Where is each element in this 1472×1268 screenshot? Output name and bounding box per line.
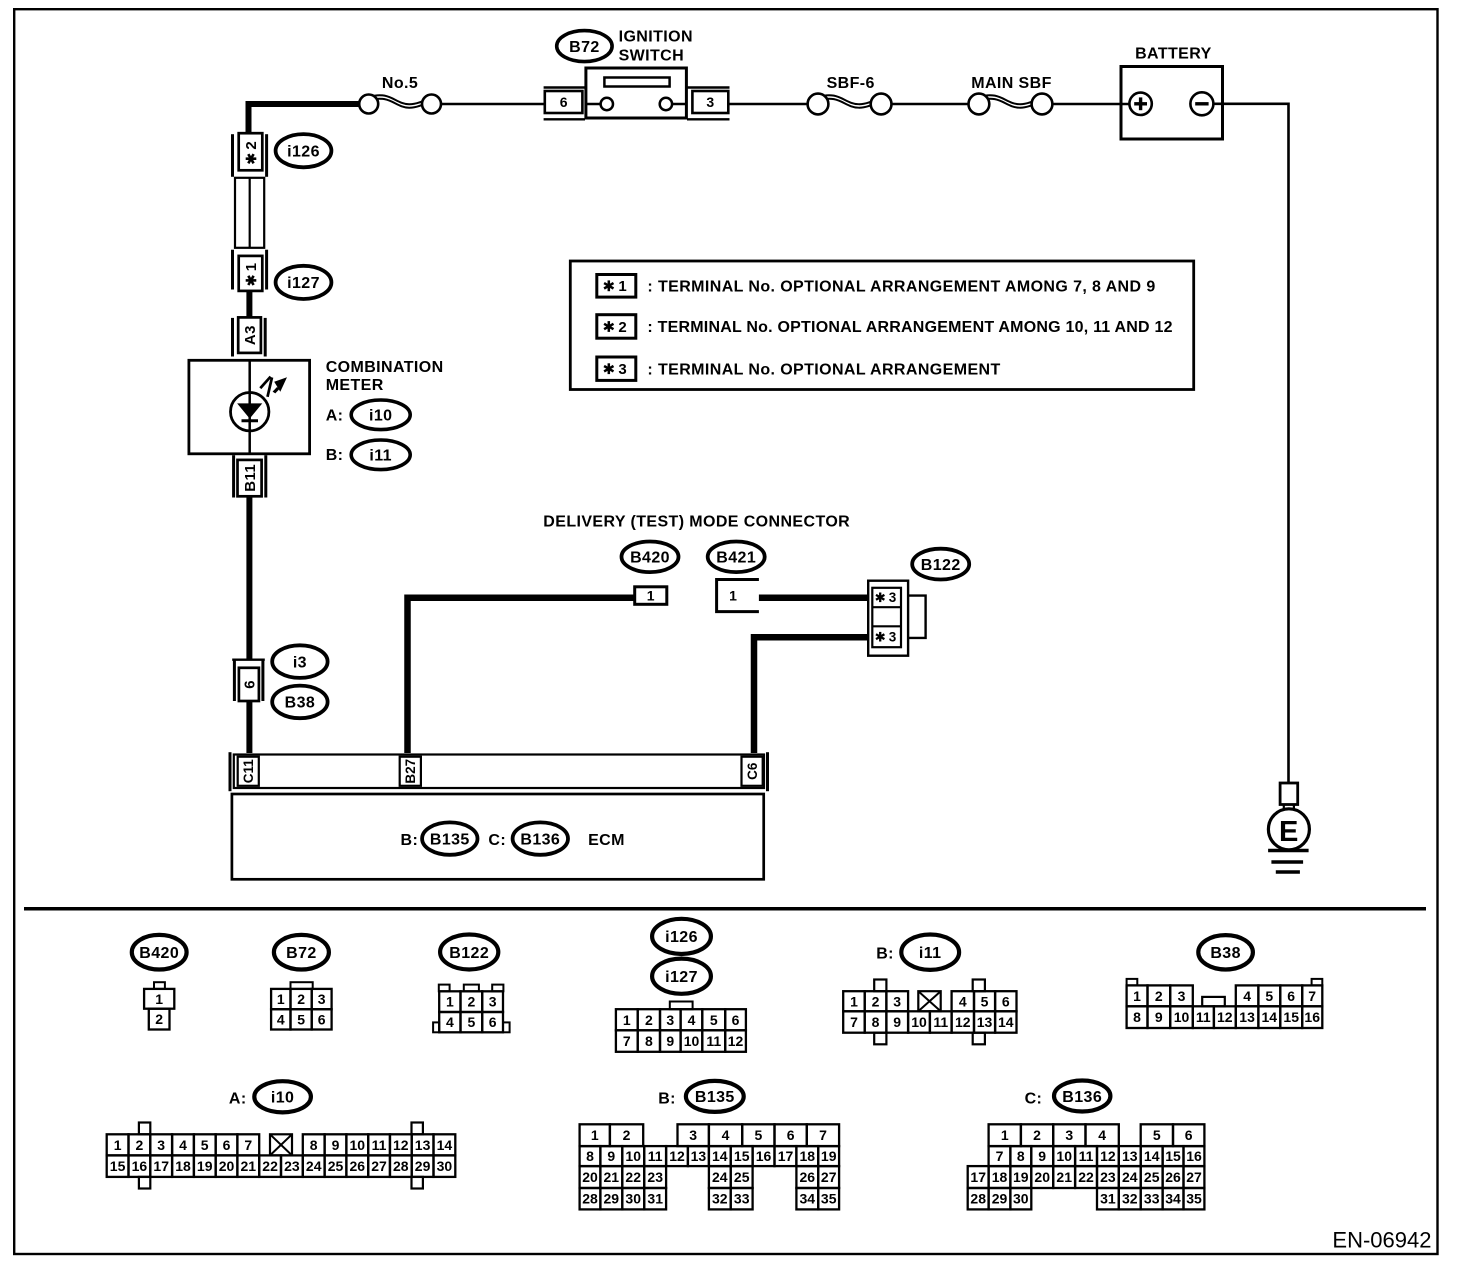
- svg-text:B420: B420: [630, 550, 670, 567]
- svg-text:34: 34: [1165, 1191, 1181, 1207]
- svg-text:2: 2: [1155, 988, 1163, 1004]
- wire: MAIN SBF to battery: [1052, 103, 1121, 106]
- svg-text:12: 12: [669, 1148, 685, 1164]
- svg-text:19: 19: [821, 1148, 837, 1164]
- svg-text:13: 13: [1122, 1148, 1138, 1164]
- pinout B136 connector grid: [989, 1124, 1021, 1146]
- pinout i126 callout ellipse: [652, 919, 711, 954]
- svg-text:28: 28: [393, 1158, 409, 1174]
- joint connector box between i126 and i127: [235, 178, 264, 248]
- callout ellipse i127: [276, 266, 332, 299]
- svg-text:16: 16: [1304, 1009, 1320, 1025]
- ground point E circle: [1268, 809, 1309, 850]
- pinout i11 blocked cell X: [918, 991, 940, 1011]
- svg-text:2: 2: [136, 1137, 144, 1153]
- svg-text:SBF-6: SBF-6: [827, 75, 875, 92]
- svg-text:2: 2: [297, 991, 305, 1007]
- svg-text:i126: i126: [287, 144, 320, 161]
- svg-text:7: 7: [819, 1127, 827, 1143]
- svg-text:6: 6: [1185, 1127, 1193, 1143]
- svg-text:3: 3: [157, 1137, 165, 1153]
- svg-text:B136: B136: [1062, 1089, 1102, 1106]
- svg-text:EN-06942: EN-06942: [1332, 1228, 1431, 1253]
- svg-text:12: 12: [728, 1033, 744, 1049]
- callout ellipse B38 (upper): [272, 686, 327, 719]
- svg-text:ECM: ECM: [588, 832, 625, 849]
- svg-text:B135: B135: [430, 831, 470, 848]
- fuse No.5: [369, 95, 432, 104]
- svg-text:B122: B122: [921, 557, 961, 574]
- svg-text:1: 1: [647, 588, 655, 604]
- connector B11 inline symbol: [232, 455, 235, 497]
- svg-text:1: 1: [1133, 988, 1141, 1004]
- svg-text:i3: i3: [293, 654, 307, 671]
- lamp wire through meter: [248, 360, 251, 454]
- svg-text:24: 24: [712, 1169, 728, 1185]
- svg-text:27: 27: [371, 1158, 387, 1174]
- svg-text:15: 15: [734, 1148, 750, 1164]
- svg-text:30: 30: [1013, 1191, 1029, 1207]
- svg-text:16: 16: [756, 1148, 772, 1164]
- svg-text:1: 1: [446, 994, 454, 1010]
- connector 6 shell: [232, 659, 265, 661]
- svg-text:1: 1: [623, 1012, 631, 1028]
- svg-text:11: 11: [1196, 1009, 1211, 1025]
- ECM terminal C6: [742, 757, 763, 786]
- svg-text:18: 18: [175, 1158, 191, 1174]
- wire: B122 to ECM C6: [754, 637, 869, 753]
- svg-text:1: 1: [277, 991, 285, 1007]
- terminal 3 box with connector bars: [687, 86, 730, 88]
- svg-text:i127: i127: [665, 969, 698, 986]
- svg-text:19: 19: [197, 1158, 213, 1174]
- legend *3 terminal box: [597, 357, 636, 380]
- svg-text:1: 1: [243, 263, 260, 272]
- svg-text:7: 7: [623, 1033, 631, 1049]
- svg-text:B136: B136: [520, 831, 560, 848]
- svg-text:17: 17: [970, 1169, 986, 1185]
- svg-text:13: 13: [977, 1014, 993, 1030]
- svg-text:3: 3: [689, 1127, 697, 1143]
- connector label B72 (ellipse): [557, 31, 612, 62]
- svg-text:3: 3: [618, 361, 627, 378]
- svg-text:21: 21: [1056, 1169, 1072, 1185]
- svg-text:28: 28: [582, 1191, 598, 1207]
- svg-text:B122: B122: [449, 945, 489, 962]
- fusible link SBF-6: [818, 95, 881, 104]
- svg-text:24: 24: [306, 1158, 322, 1174]
- svg-text:2: 2: [872, 993, 880, 1009]
- svg-text:20: 20: [219, 1158, 235, 1174]
- ECM terminal B27: [400, 757, 421, 786]
- svg-text:7: 7: [1308, 988, 1316, 1004]
- ECM terminal C11: [238, 757, 259, 786]
- battery box: [1121, 67, 1223, 140]
- ignition switch B72 body: [586, 68, 687, 118]
- wire: B420 to ECM B27: [408, 598, 635, 753]
- svg-text:3: 3: [318, 991, 326, 1007]
- svg-text:5: 5: [297, 1011, 305, 1027]
- svg-text:3: 3: [706, 94, 714, 110]
- svg-text:14: 14: [712, 1148, 728, 1164]
- svg-text:13: 13: [691, 1148, 707, 1164]
- svg-text:: TERMINAL No. OPTIONAL ARRANG: : TERMINAL No. OPTIONAL ARRANGEMENT: [647, 361, 1000, 378]
- B122 right latch bracket: [908, 596, 926, 638]
- svg-text:14: 14: [437, 1137, 453, 1153]
- svg-text:METER: METER: [326, 377, 384, 394]
- svg-text:2: 2: [243, 141, 260, 150]
- svg-text:25: 25: [328, 1158, 344, 1174]
- svg-text:31: 31: [647, 1191, 663, 1207]
- callout ellipse B122 (upper): [912, 549, 969, 580]
- svg-text:13: 13: [1239, 1009, 1255, 1025]
- svg-text:30: 30: [437, 1158, 453, 1174]
- svg-text:27: 27: [1186, 1169, 1202, 1185]
- svg-text:22: 22: [1078, 1169, 1094, 1185]
- svg-text:6: 6: [223, 1137, 231, 1153]
- svg-text:2: 2: [1033, 1127, 1041, 1143]
- svg-text:11: 11: [372, 1137, 387, 1153]
- svg-text:3: 3: [489, 994, 497, 1010]
- svg-text:34: 34: [800, 1191, 816, 1207]
- combination meter box: [189, 360, 310, 454]
- ground terminal square: [1280, 783, 1298, 805]
- svg-text:A:: A:: [229, 1091, 247, 1108]
- svg-text:IGNITION: IGNITION: [619, 29, 693, 46]
- svg-text:7: 7: [244, 1137, 252, 1153]
- svg-text:18: 18: [992, 1169, 1008, 1185]
- svg-text:25: 25: [734, 1169, 750, 1185]
- connector B421 terminal 1 box (open right): [717, 580, 759, 612]
- svg-text:MAIN SBF: MAIN SBF: [971, 75, 1052, 92]
- svg-text:12: 12: [1100, 1148, 1116, 1164]
- connector A3 inline symbol: [231, 318, 234, 357]
- svg-text:31: 31: [1100, 1191, 1116, 1207]
- svg-text:C:: C:: [1025, 1091, 1043, 1108]
- svg-text:11: 11: [1079, 1148, 1094, 1164]
- svg-text:28: 28: [970, 1191, 986, 1207]
- svg-text:9: 9: [893, 1014, 901, 1030]
- svg-text:10: 10: [350, 1137, 366, 1153]
- svg-text:3: 3: [1178, 988, 1186, 1004]
- battery negative terminal: [1190, 92, 1213, 115]
- B122 terminal *3 (lower): [879, 632, 881, 642]
- svg-text:29: 29: [604, 1191, 620, 1207]
- pinout i127 callout ellipse: [652, 959, 711, 994]
- svg-text:25: 25: [1144, 1169, 1160, 1185]
- svg-text:B27: B27: [403, 759, 418, 784]
- svg-text:1: 1: [591, 1127, 599, 1143]
- svg-text:5: 5: [710, 1012, 718, 1028]
- ignition switch key slot: [604, 78, 669, 87]
- svg-text:C6: C6: [745, 762, 760, 780]
- svg-text:i10: i10: [271, 1090, 294, 1107]
- svg-text:6: 6: [1287, 988, 1295, 1004]
- svg-text:15: 15: [1165, 1148, 1181, 1164]
- svg-text:B11: B11: [242, 464, 259, 492]
- pinout B72 connector grid: [291, 982, 313, 989]
- svg-text:B72: B72: [569, 39, 600, 56]
- ground symbol bars: [1268, 849, 1309, 852]
- svg-text:5: 5: [755, 1127, 763, 1143]
- svg-text:COMBINATION: COMBINATION: [326, 359, 444, 376]
- svg-text:5: 5: [468, 1014, 476, 1030]
- svg-text:10: 10: [1056, 1148, 1072, 1164]
- svg-text:3: 3: [889, 630, 897, 645]
- svg-text:1: 1: [850, 993, 858, 1009]
- svg-text:14: 14: [998, 1014, 1014, 1030]
- svg-text:27: 27: [821, 1169, 837, 1185]
- svg-text:6: 6: [489, 1014, 497, 1030]
- svg-text:4: 4: [959, 993, 967, 1009]
- svg-text:10: 10: [684, 1033, 700, 1049]
- wire: B421 to B122: [759, 595, 867, 602]
- svg-text:26: 26: [800, 1169, 816, 1185]
- svg-text:3: 3: [889, 590, 897, 605]
- svg-text:9: 9: [607, 1148, 615, 1164]
- svg-text:7: 7: [850, 1014, 858, 1030]
- svg-text:10: 10: [911, 1014, 927, 1030]
- svg-text:i10: i10: [369, 408, 392, 425]
- connector B122 body: [868, 581, 908, 656]
- svg-text:6: 6: [787, 1127, 795, 1143]
- svg-text:6: 6: [1002, 993, 1010, 1009]
- svg-text:23: 23: [647, 1169, 663, 1185]
- svg-text:4: 4: [179, 1137, 187, 1153]
- svg-text:No.5: No.5: [382, 75, 418, 92]
- svg-text:B38: B38: [285, 695, 316, 712]
- svg-text:12: 12: [955, 1014, 971, 1030]
- svg-text:4: 4: [1098, 1127, 1106, 1143]
- svg-text:BATTERY: BATTERY: [1135, 46, 1212, 63]
- wire: thick feed from junction corner to fuse No.5: [249, 104, 360, 134]
- svg-text:12: 12: [1217, 1009, 1233, 1025]
- svg-text:1: 1: [114, 1137, 122, 1153]
- pinout B122 callout ellipse: [440, 935, 498, 970]
- svg-text:29: 29: [415, 1158, 431, 1174]
- svg-text:13: 13: [415, 1137, 431, 1153]
- svg-text:16: 16: [1186, 1148, 1202, 1164]
- svg-text:5: 5: [1153, 1127, 1161, 1143]
- pinout B38 callout ellipse: [1198, 935, 1253, 969]
- svg-text:20: 20: [1034, 1169, 1050, 1185]
- svg-text:8: 8: [586, 1148, 594, 1164]
- svg-text:11: 11: [933, 1014, 948, 1030]
- svg-text:6: 6: [560, 94, 568, 110]
- svg-text:E: E: [1279, 816, 1299, 848]
- svg-text:A3: A3: [242, 325, 259, 345]
- callout ellipse i126: [276, 134, 332, 167]
- svg-text:4: 4: [688, 1012, 696, 1028]
- callout ellipse B421: [708, 542, 765, 573]
- pinout i10 blocked cell X: [270, 1134, 292, 1155]
- illumination arrow: [260, 377, 270, 389]
- svg-text:10: 10: [1174, 1009, 1190, 1025]
- svg-text:B38: B38: [1210, 945, 1241, 962]
- svg-text:8: 8: [872, 1014, 880, 1030]
- pinout B72 callout ellipse: [274, 935, 329, 970]
- connector i127 pair (*1) inline symbol: [231, 250, 234, 290]
- svg-text:1: 1: [729, 588, 737, 604]
- fusible link MAIN SBF: [979, 95, 1042, 104]
- connector B420 terminal 1 box: [635, 587, 667, 605]
- svg-text:2: 2: [645, 1012, 653, 1028]
- svg-text:20: 20: [582, 1169, 598, 1185]
- ECM body box: [232, 794, 764, 879]
- svg-text:2: 2: [155, 1011, 163, 1027]
- wire: ignition switch to fuse SBF-6: [730, 103, 808, 106]
- svg-text:33: 33: [1144, 1191, 1160, 1207]
- svg-text:6: 6: [732, 1012, 740, 1028]
- svg-text:17: 17: [778, 1148, 794, 1164]
- svg-text:3: 3: [666, 1012, 674, 1028]
- svg-text:4: 4: [446, 1014, 454, 1030]
- svg-text:3: 3: [1065, 1127, 1073, 1143]
- svg-text:i11: i11: [369, 448, 392, 465]
- legend *2 terminal box: [597, 315, 636, 339]
- svg-text:4: 4: [1243, 988, 1251, 1004]
- battery positive terminal: [1121, 103, 1129, 106]
- B122 terminal *3 (upper): [879, 593, 881, 603]
- pinout i11 connector grid: [874, 980, 886, 992]
- svg-text:29: 29: [992, 1191, 1008, 1207]
- svg-text:26: 26: [1165, 1169, 1181, 1185]
- svg-text:B:: B:: [876, 945, 894, 962]
- svg-text:9: 9: [1038, 1148, 1046, 1164]
- svg-text:1: 1: [1001, 1127, 1009, 1143]
- svg-text:6: 6: [318, 1011, 326, 1027]
- svg-text:B:: B:: [658, 1091, 676, 1108]
- separator line between schematic and pinouts: [24, 907, 1426, 911]
- svg-text:3: 3: [893, 993, 901, 1009]
- svg-text:B420: B420: [139, 945, 179, 962]
- pinout B38 connector grid: [1127, 979, 1138, 986]
- pinout B38 center key tab: [1202, 997, 1225, 1006]
- svg-text:i127: i127: [287, 275, 320, 292]
- svg-text:B:: B:: [326, 447, 344, 464]
- svg-text:10: 10: [625, 1148, 641, 1164]
- svg-text:22: 22: [625, 1169, 641, 1185]
- svg-text:23: 23: [284, 1158, 300, 1174]
- svg-text:6: 6: [241, 680, 258, 689]
- svg-text:4: 4: [722, 1127, 730, 1143]
- svg-text:18: 18: [800, 1148, 816, 1164]
- legend *1 terminal box: [597, 275, 636, 298]
- connector 6 terminal box: [239, 668, 259, 701]
- svg-text:7: 7: [996, 1148, 1004, 1164]
- svg-text:: TERMINAL No. OPTIONAL ARRANG: : TERMINAL No. OPTIONAL ARRANGEMENT AMON…: [647, 319, 1172, 336]
- svg-text:: TERMINAL No. OPTIONAL ARRANG: : TERMINAL No. OPTIONAL ARRANGEMENT AMON…: [647, 279, 1155, 296]
- svg-text:26: 26: [350, 1158, 366, 1174]
- callout ellipse B420: [622, 542, 679, 573]
- svg-text:32: 32: [712, 1191, 728, 1207]
- svg-text:1: 1: [618, 278, 627, 295]
- wire: i127 to connector A3: [246, 290, 252, 318]
- svg-text:i126: i126: [665, 929, 698, 946]
- svg-text:11: 11: [648, 1148, 663, 1164]
- svg-text:11: 11: [706, 1033, 721, 1049]
- pinout B420 callout ellipse: [132, 935, 187, 970]
- pinout B420 connector: [154, 982, 165, 989]
- svg-text:8: 8: [1017, 1148, 1025, 1164]
- svg-text:DELIVERY (TEST) MODE CONNECTOR: DELIVERY (TEST) MODE CONNECTOR: [543, 514, 850, 531]
- svg-text:2: 2: [623, 1127, 631, 1143]
- svg-text:24: 24: [1122, 1169, 1138, 1185]
- warning lamp LED triangle and cathode bar: [238, 404, 261, 418]
- connector i126 pair (*2) inline symbol: [231, 134, 234, 177]
- ECM connector strip: [229, 752, 232, 791]
- svg-text:5: 5: [1265, 988, 1273, 1004]
- svg-text:9: 9: [332, 1137, 340, 1153]
- svg-text:A:: A:: [326, 407, 344, 424]
- svg-text:16: 16: [132, 1158, 148, 1174]
- terminal 6 box with connector bars: [544, 86, 585, 88]
- svg-text:8: 8: [310, 1137, 318, 1153]
- ignition switch terminal circles and stubs: [586, 103, 601, 106]
- callout ellipse i3: [272, 645, 327, 678]
- svg-text:19: 19: [1013, 1169, 1029, 1185]
- svg-text:B72: B72: [286, 945, 317, 962]
- pinout B135 connector grid: [580, 1124, 610, 1146]
- wire: B11 down to connector 6: [246, 496, 252, 659]
- svg-text:9: 9: [666, 1033, 674, 1049]
- svg-text:17: 17: [153, 1158, 169, 1174]
- svg-text:23: 23: [1100, 1169, 1116, 1185]
- wire: SBF-6 to MAIN SBF: [892, 103, 969, 106]
- svg-text:32: 32: [1122, 1191, 1138, 1207]
- svg-text:14: 14: [1144, 1148, 1160, 1164]
- svg-text:B135: B135: [695, 1089, 735, 1106]
- pinout i10 connector grid: [139, 1123, 150, 1135]
- svg-text:35: 35: [1186, 1191, 1202, 1207]
- svg-text:15: 15: [110, 1158, 126, 1174]
- svg-text:1: 1: [155, 991, 163, 1007]
- svg-text:SWITCH: SWITCH: [619, 48, 685, 65]
- svg-text:5: 5: [201, 1137, 209, 1153]
- svg-text:9: 9: [1155, 1009, 1163, 1025]
- svg-text:21: 21: [604, 1169, 620, 1185]
- svg-text:8: 8: [645, 1033, 653, 1049]
- pinout i126/i127 connector grid: [670, 1002, 693, 1010]
- svg-text:4: 4: [277, 1011, 285, 1027]
- legend note box: [570, 261, 1193, 390]
- svg-text:8: 8: [1133, 1009, 1141, 1025]
- svg-text:35: 35: [821, 1191, 837, 1207]
- wire: battery to ground E (right side): [1213, 104, 1288, 783]
- svg-text:21: 21: [241, 1158, 257, 1174]
- svg-text:33: 33: [734, 1191, 750, 1207]
- svg-text:2: 2: [618, 319, 627, 336]
- pinout B122 connector grid: [439, 985, 450, 992]
- svg-text:B:: B:: [401, 832, 419, 849]
- svg-text:B421: B421: [716, 550, 756, 567]
- svg-text:2: 2: [468, 994, 476, 1010]
- svg-text:C11: C11: [241, 759, 256, 784]
- svg-text:30: 30: [625, 1191, 641, 1207]
- svg-text:12: 12: [393, 1137, 409, 1153]
- svg-text:5: 5: [981, 993, 989, 1009]
- svg-text:15: 15: [1283, 1009, 1299, 1025]
- svg-text:22: 22: [262, 1158, 278, 1174]
- wire: connector 6 down to ECM C11: [246, 701, 252, 754]
- warning lamp LED symbol: [231, 393, 269, 431]
- svg-text:14: 14: [1262, 1009, 1278, 1025]
- svg-text:i11: i11: [919, 945, 942, 962]
- wire: fuse No.5 to ignition switch terminal 6: [441, 103, 545, 106]
- svg-text:C:: C:: [488, 832, 506, 849]
